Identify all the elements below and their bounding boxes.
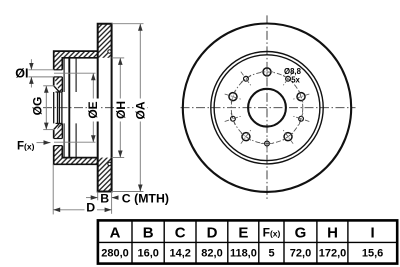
dimension OI extension lines — [29, 69, 54, 71]
svg-text:ØG: ØG — [30, 97, 44, 116]
bolt hole at 72deg with crosshair — [290, 88, 311, 105]
fillet circle (bottom) — [108, 162, 111, 165]
rim outline contour — [98, 24, 112, 192]
flange top inner edge — [62, 58, 97, 70]
fillet circle (top) — [108, 50, 111, 53]
hat flange hatched section (top) — [54, 51, 98, 70]
plate left face through bore (top half) — [53, 77, 55, 86]
small hole at 180deg with crosshair — [261, 134, 273, 152]
mounting plate hatched piece with bore chamfer (top) — [54, 77, 63, 92]
svg-text:118,0: 118,0 — [230, 248, 257, 260]
dimension OE line — [92, 73, 94, 142]
center bore OG — [248, 89, 286, 127]
svg-text:ØH: ØH — [114, 101, 128, 119]
label OE — [87, 99, 99, 122]
svg-text:82,0: 82,0 — [201, 248, 222, 260]
bolt circle OE (dash-dot) — [231, 72, 303, 144]
small hole at 36deg with crosshair — [278, 68, 299, 90]
flange top contour — [54, 51, 98, 70]
svg-text:72,0: 72,0 — [290, 248, 311, 260]
plate left face through bore (bottom half) — [53, 130, 55, 139]
svg-text:E: E — [238, 224, 248, 241]
dimension B extension lines — [97, 192, 99, 201]
dimension OG extension lines — [43, 85, 54, 87]
drum circle OH outer — [211, 51, 323, 163]
svg-text:B: B — [143, 224, 154, 241]
flange bottom contour — [54, 146, 98, 165]
mounting plate hatched piece with bore chamfer (bottom) — [54, 123, 63, 138]
dimension OA extension lines — [112, 23, 144, 25]
outer circle OA — [183, 24, 351, 192]
svg-text:C: C — [175, 224, 186, 241]
dimension OH extension lines — [112, 57, 125, 59]
plate right face (bottom) — [61, 123, 63, 138]
svg-text:172,0: 172,0 — [319, 248, 347, 260]
bolt hole at 288deg with crosshair — [223, 88, 244, 105]
svg-text:C (MTH): C (MTH) — [122, 192, 169, 206]
bore chamfer diagonal (bottom) — [54, 123, 60, 129]
column lines — [132, 220, 348, 263]
hat flange hatched section (bottom) — [54, 146, 98, 165]
svg-text:ØE: ØE — [86, 101, 100, 118]
bolt hole gap edges (bottom) — [54, 145, 63, 147]
dimension OE extension lines — [54, 72, 96, 74]
svg-text:5: 5 — [268, 248, 274, 260]
svg-text:14,2: 14,2 — [169, 248, 190, 260]
header divider — [98, 241, 397, 243]
small hole at 108deg with crosshair — [290, 110, 311, 127]
bore surface lines — [56, 91, 62, 93]
svg-text:15,6: 15,6 — [362, 248, 383, 260]
bolt hole at 0deg with crosshair — [261, 63, 273, 81]
dimension OH line — [119, 58, 121, 158]
friction rim hatched section (bottom) — [98, 158, 112, 192]
hub step line a — [63, 58, 65, 158]
small hole at 324deg with crosshair — [236, 68, 257, 90]
svg-text:A: A — [110, 224, 121, 241]
svg-text:I: I — [371, 224, 375, 241]
svg-text:G: G — [295, 224, 307, 241]
dimension OA line — [139, 24, 141, 192]
dimension D extension line — [52, 164, 54, 214]
svg-text:H: H — [327, 224, 338, 241]
svg-text:B: B — [100, 191, 109, 205]
plate right face (top) — [61, 77, 63, 92]
dimension B arrows — [86, 197, 98, 199]
axis centerline (left view) — [43, 107, 148, 109]
dimension D line — [53, 209, 111, 211]
bolt hole gap edges (top) — [54, 69, 63, 71]
bolt hole at 144deg with crosshair — [278, 125, 299, 147]
svg-text:5x: 5x — [291, 75, 300, 84]
drum circle OH inner — [214, 55, 320, 161]
friction rim hatched section (top) — [98, 24, 112, 58]
hat drum wall silhouette — [68, 58, 70, 158]
bore column verticals — [57, 92, 59, 123]
dimension OG line — [45, 86, 47, 130]
plate left face through bore band — [53, 92, 55, 123]
svg-text:F(x): F(x) — [263, 226, 281, 240]
svg-text:D: D — [207, 224, 218, 241]
hub step line b — [75, 58, 77, 158]
label OH — [115, 99, 127, 122]
svg-text:F(x): F(x) — [17, 140, 35, 152]
svg-text:ØA: ØA — [134, 101, 148, 119]
label OA — [135, 99, 147, 122]
svg-text:280,0: 280,0 — [101, 248, 129, 260]
svg-text:ØI: ØI — [15, 66, 28, 80]
vertical centerline — [266, 15, 268, 199]
svg-text:D: D — [86, 200, 95, 214]
svg-text:16,0: 16,0 — [137, 248, 158, 260]
bolt hole at 216deg with crosshair — [236, 125, 257, 147]
bore chamfer diagonal (top) — [54, 86, 60, 92]
flange bottom inner edge — [62, 146, 97, 158]
horizontal centerline — [181, 107, 356, 109]
label D — [85, 203, 98, 213]
small hole at 252deg with crosshair — [223, 110, 244, 127]
table body — [98, 220, 397, 263]
dimension OI arrows — [30, 59, 32, 70]
